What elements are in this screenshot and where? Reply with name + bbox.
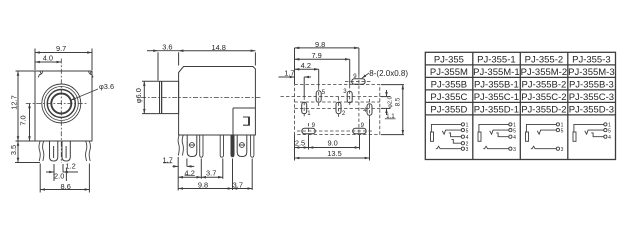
svg-text:4.0: 4.0 [43, 53, 53, 62]
svg-text:PJ-355D-2: PJ-355D-2 [521, 105, 566, 116]
svg-text:PJ-355B-1: PJ-355B-1 [474, 80, 519, 91]
svg-text:PJ-355D: PJ-355D [430, 105, 467, 116]
svg-text:PJ-355D-1: PJ-355D-1 [474, 105, 519, 116]
svg-text:7.0: 7.0 [19, 115, 28, 125]
svg-text:PJ-355-3: PJ-355-3 [572, 55, 611, 66]
svg-text:5: 5 [608, 128, 611, 134]
svg-text:PJ-355M-1: PJ-355M-1 [473, 67, 519, 78]
svg-text:PJ-355: PJ-355 [434, 55, 464, 66]
svg-text:1: 1 [307, 111, 311, 117]
svg-text:PJ-355C: PJ-355C [430, 92, 467, 103]
svg-text:PJ-355D-3: PJ-355D-3 [569, 105, 614, 116]
svg-text:2.0: 2.0 [54, 172, 64, 181]
svg-text:7.9: 7.9 [311, 51, 321, 60]
svg-text:PJ-355B-3: PJ-355B-3 [569, 80, 614, 91]
svg-text:PJ-355C-3: PJ-355C-3 [569, 92, 614, 103]
svg-text:1.7: 1.7 [284, 69, 294, 78]
svg-text:PJ-355B-2: PJ-355B-2 [521, 80, 566, 91]
svg-text:5: 5 [513, 128, 516, 134]
svg-text:4: 4 [466, 135, 469, 141]
svg-text:8.6: 8.6 [61, 182, 71, 191]
svg-text:4: 4 [513, 135, 516, 141]
svg-text:5: 5 [561, 128, 564, 134]
svg-text:3.5: 3.5 [9, 145, 18, 155]
svg-text:8-(2.0x0.8): 8-(2.0x0.8) [369, 69, 408, 78]
svg-text:9.0: 9.0 [327, 138, 337, 147]
svg-text:PJ-355M: PJ-355M [430, 67, 468, 78]
svg-text:1.7: 1.7 [163, 156, 173, 165]
svg-text:3.7: 3.7 [233, 181, 243, 190]
svg-text:9.8: 9.8 [315, 40, 325, 49]
svg-text:φ3.6: φ3.6 [99, 82, 114, 91]
svg-text:5: 5 [322, 90, 326, 96]
svg-text:2: 2 [342, 111, 346, 117]
svg-text:3: 3 [561, 147, 564, 153]
svg-text:PJ-355-2: PJ-355-2 [525, 55, 564, 66]
svg-text:1.2: 1.2 [65, 161, 75, 170]
svg-text:PJ-355C-1: PJ-355C-1 [474, 92, 519, 103]
svg-text:1.1: 1.1 [386, 113, 395, 120]
svg-text:2.5: 2.5 [295, 138, 305, 147]
svg-text:14.8: 14.8 [212, 43, 226, 52]
svg-text:3.6: 3.6 [162, 43, 172, 52]
svg-text:PJ-355B: PJ-355B [431, 80, 467, 91]
svg-text:3: 3 [466, 147, 469, 153]
svg-text:3.7: 3.7 [206, 168, 216, 177]
svg-text:PJ-355M-2: PJ-355M-2 [521, 67, 567, 78]
svg-text:4.2: 4.2 [185, 168, 195, 177]
svg-text:9.8: 9.8 [198, 181, 208, 190]
svg-text:3: 3 [343, 89, 347, 95]
svg-text:9: 9 [312, 123, 316, 129]
svg-text:4.2: 4.2 [301, 61, 311, 70]
svg-text:φ2.0: φ2.0 [388, 96, 394, 107]
svg-text:12.7: 12.7 [9, 95, 18, 109]
svg-text:PJ-355-1: PJ-355-1 [477, 55, 516, 66]
svg-text:φ6.0: φ6.0 [134, 88, 143, 103]
svg-text:8.5: 8.5 [394, 97, 401, 106]
svg-text:4: 4 [608, 135, 611, 141]
svg-text:13.5: 13.5 [327, 149, 341, 158]
svg-text:5: 5 [466, 128, 469, 134]
svg-text:9.7: 9.7 [56, 44, 66, 53]
svg-text:PJ-355C-2: PJ-355C-2 [521, 92, 566, 103]
svg-text:3: 3 [513, 147, 516, 153]
svg-text:PJ-355M-3: PJ-355M-3 [568, 67, 614, 78]
